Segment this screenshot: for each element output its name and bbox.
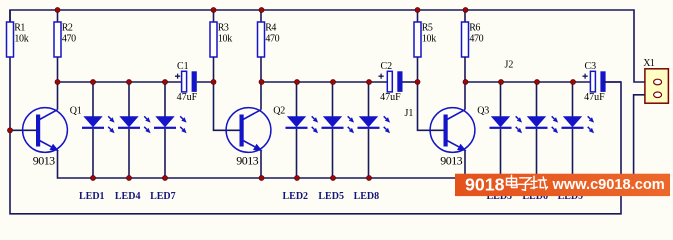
wire R3 bottom through coupling node to Q2 base <box>214 57 240 130</box>
svg-text:470: 470 <box>62 34 76 45</box>
wire top rail to R4 <box>260 10 262 22</box>
wire LED7 cathode lead <box>164 129 166 178</box>
LED 2 triangle <box>287 116 306 127</box>
svg-text:470: 470 <box>469 34 483 45</box>
wire Q1 base lead from left rail <box>10 129 36 131</box>
LED 5 cathode bar <box>322 127 344 129</box>
LED 7 cathode bar <box>154 127 176 129</box>
junction on ground rail at x=465.5 <box>463 175 468 180</box>
junction on collector rail at x=213.5 <box>211 79 216 84</box>
svg-text:47uF: 47uF <box>584 92 605 103</box>
svg-text:470: 470 <box>265 34 279 45</box>
junction on ground rail at x=369 <box>366 175 371 180</box>
transistor Q1 circle <box>23 108 68 153</box>
wire collector lead of Q3 <box>464 82 466 110</box>
junction on collector rail at x=165 <box>162 79 167 84</box>
LED 1 triangle <box>83 116 102 127</box>
LED 3 triangle <box>491 116 510 127</box>
wire top rail to R1 <box>9 10 11 22</box>
junction on collector rail at x=129 <box>126 79 131 84</box>
LED 2 emission arrow 2 <box>312 127 318 133</box>
wire +V top rail with right-hand drop to X1 pin 1 <box>10 10 645 82</box>
svg-text:9013: 9013 <box>33 153 55 167</box>
svg-text:C1: C1 <box>177 61 189 72</box>
wire collector lead of Q2 <box>260 82 262 110</box>
LED 2 emission arrow 1 <box>312 116 318 122</box>
svg-text:R3: R3 <box>218 23 229 34</box>
svg-text:47uF: 47uF <box>177 92 198 103</box>
LED 8 emission arrow 1 <box>384 116 390 122</box>
wire LED6 cathode lead <box>536 129 538 178</box>
wire C2 right lead to next stage base column <box>403 81 418 83</box>
capacitor C2 plus sign <box>379 74 384 79</box>
wire collector rail of Q2 stage <box>261 81 387 83</box>
svg-text:X1: X1 <box>643 58 655 69</box>
LED 7 emission arrow 2 <box>180 127 186 133</box>
LED 9 emission arrow 1 <box>588 116 594 122</box>
junction on collector rail at x=537 <box>534 79 539 84</box>
svg-text:9018: 9018 <box>465 175 505 195</box>
svg-text:J2: J2 <box>505 60 514 71</box>
LED 3 emission arrow 1 <box>516 116 522 122</box>
junction on collector rail at x=417.5 <box>415 79 420 84</box>
junction on ground rail at x=333 <box>330 175 335 180</box>
LED 4 cathode bar <box>118 127 140 129</box>
wire top rail to R6 <box>464 10 466 22</box>
transistor Q1 collector stroke <box>40 110 58 120</box>
capacitor C3 positive plate <box>590 71 595 92</box>
junction on collector rail at x=93 <box>90 79 95 84</box>
svg-text:R2: R2 <box>62 23 73 34</box>
LED 5 triangle <box>323 116 342 127</box>
LED 8 triangle <box>359 116 378 127</box>
svg-text:LED8: LED8 <box>354 191 380 202</box>
resistor R1 10k body <box>7 22 14 57</box>
LED 9 cathode bar <box>562 127 584 129</box>
junction on ground rail at x=501 <box>498 175 503 180</box>
connector X1 pin 1 <box>654 79 662 85</box>
svg-text:C3: C3 <box>585 61 597 72</box>
junction on collector rail at x=333 <box>330 79 335 84</box>
svg-text:47uF: 47uF <box>380 92 401 103</box>
junction on collector rail at x=465.5 <box>463 79 468 84</box>
junction on collector rail at x=501 <box>498 79 503 84</box>
wire feedback net: R1 bottom, left rail, bottom rail, riser to C3 right plate <box>10 57 621 214</box>
junction on +V rail at x=261.5 <box>259 7 264 12</box>
svg-text:LED4: LED4 <box>115 191 141 202</box>
svg-text:R1: R1 <box>14 23 25 34</box>
transistor Q3 circle <box>430 108 475 153</box>
connector X1 pin 2 <box>654 92 662 98</box>
LED 4 emission arrow 1 <box>144 116 150 122</box>
svg-text:LED1: LED1 <box>79 191 105 202</box>
wire LED9 anode lead <box>572 82 574 117</box>
wire LED8 anode lead <box>368 82 370 117</box>
junction on ground rail at x=297 <box>294 175 299 180</box>
wire LED7 anode lead <box>164 82 166 117</box>
junction on ground rail at x=537 <box>534 175 539 180</box>
LED 1 cathode bar <box>82 127 104 129</box>
wire R2 bottom to collector node <box>57 57 59 82</box>
wire R5 bottom through coupling node to Q3 base <box>418 57 444 130</box>
junction on collector rail at x=57.5 <box>55 79 60 84</box>
LED 5 emission arrow 2 <box>348 127 354 133</box>
junction on +V rail at x=57.5 <box>55 7 60 12</box>
LED 7 emission arrow 1 <box>180 116 186 122</box>
svg-text:Q2: Q2 <box>273 105 285 116</box>
transistor Q1 base bar <box>36 115 40 147</box>
wire LED6 anode lead <box>536 82 538 117</box>
LED 8 emission arrow 2 <box>384 127 390 133</box>
wire LED3 cathode lead <box>500 129 502 178</box>
svg-text:10k: 10k <box>14 34 28 45</box>
wire ground rail from Q1 emitter to X1 pin 2 <box>58 95 646 178</box>
junction on collector rail at x=261.5 <box>259 79 264 84</box>
svg-text:R5: R5 <box>422 23 433 34</box>
junction on ground rail at x=129 <box>126 175 131 180</box>
wire LED5 cathode lead <box>332 129 334 178</box>
wire LED3 anode lead <box>500 82 502 117</box>
junction on ground rail at x=261.5 <box>259 175 264 180</box>
watermark banner 9018 dianzicheng www.c9018.com <box>0 0 1 1</box>
svg-text:10k: 10k <box>218 34 232 45</box>
junction on ground rail at x=93 <box>90 175 95 180</box>
wire LED2 anode lead <box>296 82 298 117</box>
LED 4 emission arrow 2 <box>144 127 150 133</box>
LED 6 cathode bar <box>526 127 548 129</box>
capacitor C1 positive plate <box>182 71 187 92</box>
LED 8 cathode bar <box>358 127 380 129</box>
junction on +V rail at x=417.5 <box>415 7 420 12</box>
LED 9 triangle <box>563 116 582 127</box>
transistor Q2 circle <box>226 108 271 153</box>
LED 6 emission arrow 2 <box>552 127 558 133</box>
LED 1 emission arrow 2 <box>108 127 114 133</box>
wire LED9 cathode lead <box>572 129 574 178</box>
svg-text:9013: 9013 <box>440 153 462 167</box>
wire R4 bottom to collector node <box>260 57 262 82</box>
junction on +V rail at x=465.5 <box>463 7 468 12</box>
wire top rail to R2 <box>57 10 59 22</box>
LED 2 cathode bar <box>286 127 308 129</box>
wire C1 right lead to next stage base column <box>197 81 214 83</box>
connector X1 body <box>645 69 669 103</box>
svg-text:C2: C2 <box>381 61 393 72</box>
LED 6 emission arrow 1 <box>552 116 558 122</box>
capacitor C2 positive plate <box>387 71 392 92</box>
wire collector lead of Q1 <box>57 82 59 110</box>
svg-text:Q3: Q3 <box>477 105 489 116</box>
LED 6 triangle <box>527 116 546 127</box>
svg-text:9013: 9013 <box>236 153 258 167</box>
transistor Q3 collector stroke <box>447 110 465 120</box>
wire LED1 cathode lead <box>92 129 94 178</box>
capacitor C1 plus sign <box>175 74 180 79</box>
svg-text:www.c9018.com: www.c9018.com <box>552 177 665 193</box>
transistor Q3 base bar <box>444 115 448 147</box>
wire LED2 cathode lead <box>296 129 298 178</box>
wire collector rail of Q1 stage <box>58 81 182 83</box>
capacitor C2 negative plate <box>397 71 402 92</box>
capacitor C3 negative plate <box>600 71 605 92</box>
capacitor C3 plus sign <box>583 74 588 79</box>
resistor R6 470 body <box>462 22 469 57</box>
svg-text:R4: R4 <box>265 23 276 34</box>
wire top rail to R5 <box>417 10 419 22</box>
resistor R4 470 body <box>258 22 265 57</box>
wire top rail to R3 <box>213 10 215 22</box>
wire LED4 cathode lead <box>128 129 130 178</box>
svg-text:R6: R6 <box>469 23 480 34</box>
LED 3 cathode bar <box>490 127 512 129</box>
svg-text:Q1: Q1 <box>70 105 82 116</box>
resistor R3 10k body <box>210 22 217 57</box>
wire LED8 cathode lead <box>368 129 370 178</box>
resistor R2 470 body <box>54 22 61 57</box>
LED 3 emission arrow 2 <box>516 127 522 133</box>
junction on ground rail at x=165 <box>162 175 167 180</box>
wire Q2 emitter to ground rail <box>260 151 262 179</box>
wire Q3 emitter to ground rail <box>464 151 466 179</box>
transistor Q2 base bar <box>240 115 244 147</box>
junction on collector rail at x=369 <box>366 79 371 84</box>
junction on collector rail at x=573 <box>570 79 575 84</box>
junction on ground rail at x=573 <box>570 175 575 180</box>
junction node Q1 base on left rail <box>7 128 12 133</box>
capacitor C1 negative plate <box>192 71 197 92</box>
transistor Q3 emitter stroke with arrow <box>447 141 467 152</box>
svg-text:LED7: LED7 <box>150 191 176 202</box>
transistor Q2 collector stroke <box>243 110 261 120</box>
LED 9 emission arrow 2 <box>588 127 594 133</box>
transistor Q2 emitter stroke with arrow <box>243 141 263 152</box>
svg-text:LED5: LED5 <box>318 191 344 202</box>
LED 4 triangle <box>119 116 138 127</box>
svg-text:LED2: LED2 <box>283 191 309 202</box>
svg-text:10k: 10k <box>422 34 436 45</box>
LED 1 emission arrow 1 <box>108 116 114 122</box>
svg-text:J1: J1 <box>405 108 414 119</box>
LED 5 emission arrow 1 <box>348 116 354 122</box>
transistor Q1 emitter stroke with arrow <box>40 141 60 152</box>
junction on +V rail at x=213.5 <box>211 7 216 12</box>
wire LED5 anode lead <box>332 82 334 117</box>
resistor R5 10k body <box>414 22 421 57</box>
LED 7 triangle <box>155 116 174 127</box>
wire C3 right lead to feedback riser <box>603 81 621 83</box>
wire collector rail of Q3 stage <box>465 81 590 83</box>
junction on collector rail at x=297 <box>294 79 299 84</box>
wire R6 bottom to collector node <box>464 57 466 82</box>
wire LED1 anode lead <box>92 82 94 117</box>
wire LED4 anode lead <box>128 82 130 117</box>
